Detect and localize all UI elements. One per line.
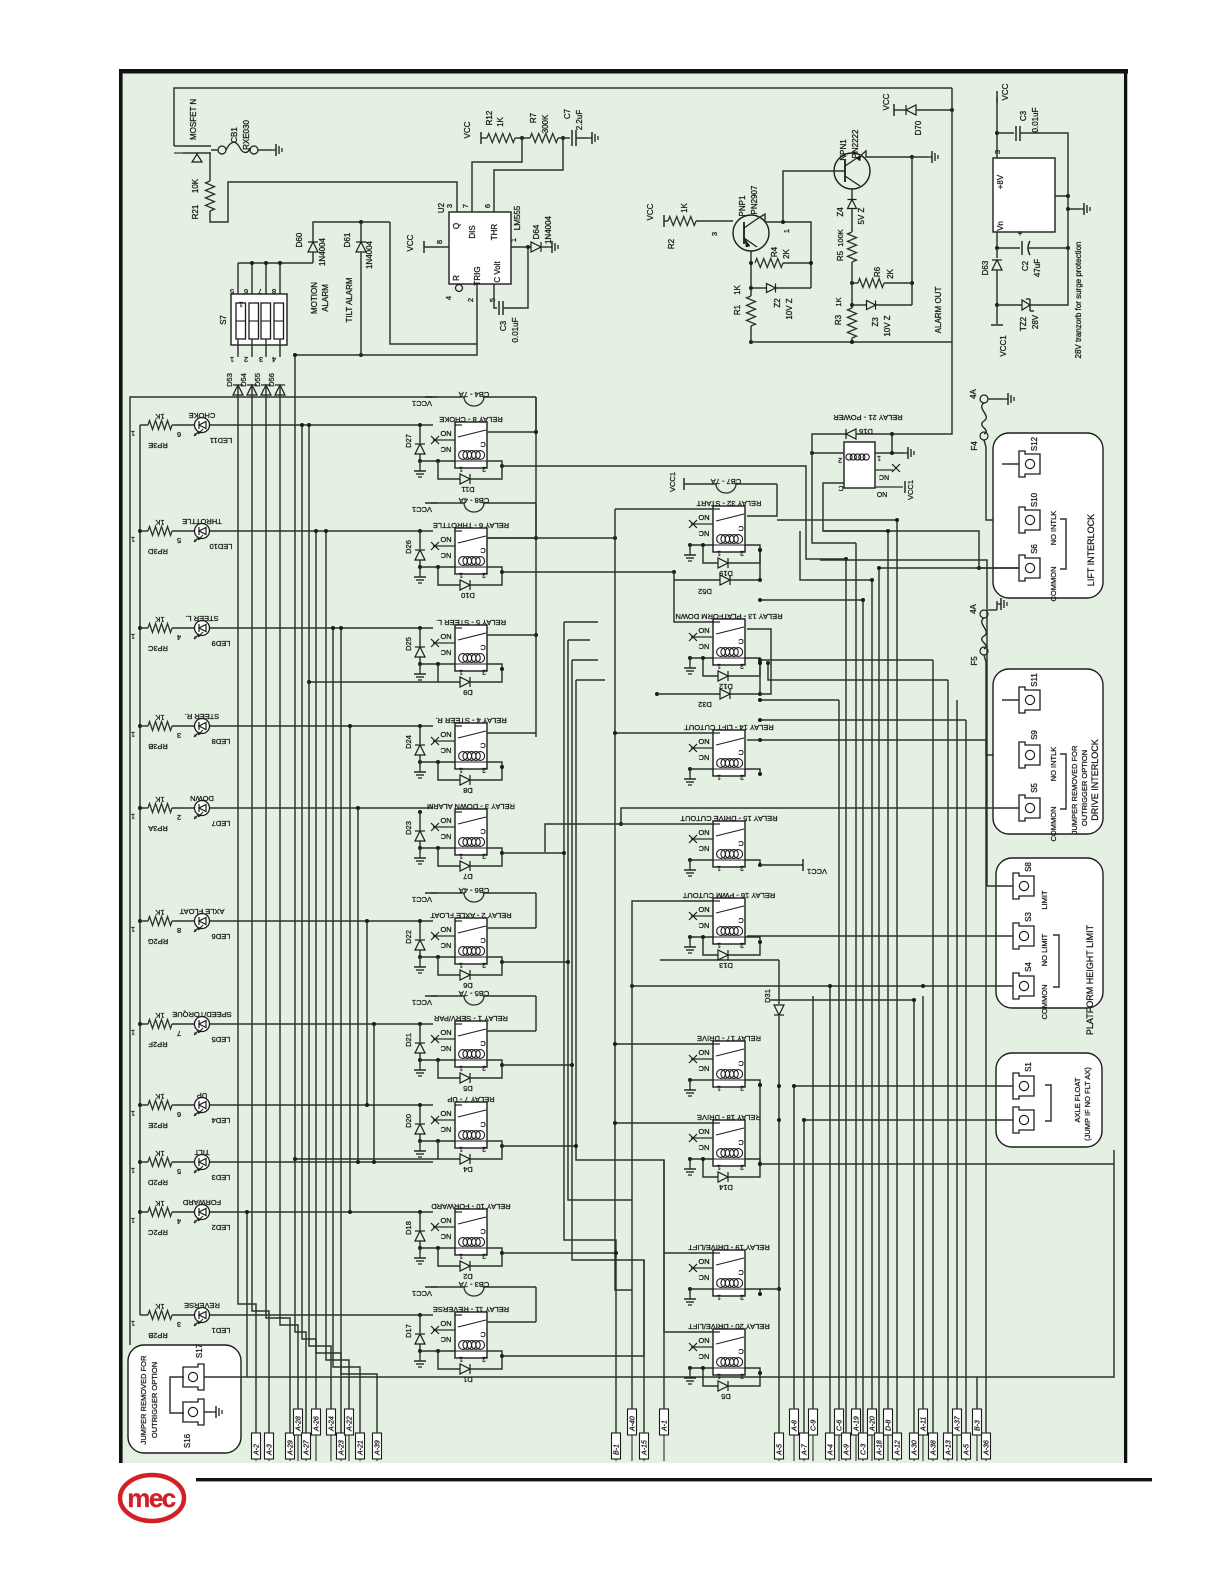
svg-text:R3: R3 [834, 314, 843, 325]
diode D17 [418, 1313, 422, 1317]
svg-text:TRIG: TRIG [473, 266, 482, 285]
ground D24 [418, 760, 422, 764]
wire VCC to R2 [663, 215, 665, 227]
svg-text:100K: 100K [836, 229, 845, 247]
wire pin1 RELAY 4 - STEER R. [420, 761, 455, 763]
connector A-22 [345, 1409, 354, 1435]
svg-text:C: C [838, 484, 844, 493]
svg-text:A-27: A-27 [304, 1439, 311, 1456]
svg-text:NO: NO [440, 429, 451, 438]
wire relay5 loop extension [309, 681, 438, 683]
svg-text:D63: D63 [981, 260, 990, 275]
svg-text:NC: NC [698, 921, 709, 930]
svg-text:1: 1 [459, 465, 463, 472]
svg-text:A-5: A-5 [777, 1444, 784, 1456]
svg-text:LED10: LED10 [210, 542, 233, 551]
svg-text:NC: NC [698, 529, 709, 538]
svg-text:D53: D53 [225, 373, 234, 387]
wire pin1 RELAY 5 - STEER L. [420, 663, 455, 665]
svg-text:S6: S6 [1030, 544, 1039, 554]
ground RELAY 19 - DRIVE/LIFT [688, 1287, 692, 1291]
resistor RP3C 1K [148, 624, 172, 633]
wire row STEER L. [140, 627, 148, 629]
svg-text:CB3 - 7A: CB3 - 7A [459, 1280, 489, 1289]
svg-text:OUTRIGGER OPTION: OUTRIGGER OPTION [1080, 750, 1089, 826]
pin 8 VCC [423, 241, 425, 253]
transistor NPN1 PN2222 [834, 153, 870, 189]
svg-text:D19: D19 [719, 569, 733, 578]
svg-text:A-37: A-37 [955, 1415, 962, 1432]
resistor R21 10K [209, 153, 211, 181]
svg-text:RELAY 21 - POWER: RELAY 21 - POWER [833, 413, 903, 422]
wire right bundle peel-offs [760, 599, 863, 601]
wire PNP1 pin1 loop [757, 214, 811, 288]
svg-text:ALARM: ALARM [321, 284, 330, 312]
svg-text:1: 1 [717, 773, 721, 780]
svg-text:3: 3 [259, 355, 263, 364]
svg-text:D32: D32 [698, 700, 712, 709]
node rail LED8 [138, 724, 142, 728]
svg-text:2: 2 [482, 1355, 486, 1362]
wire relay15 NO run [545, 824, 713, 852]
svg-text:RELAY 13 - PLATFORM DOWN: RELAY 13 - PLATFORM DOWN [675, 612, 782, 621]
svg-text:VCC: VCC [1001, 83, 1010, 100]
svg-text:3: 3 [710, 232, 719, 236]
svg-text:2: 2 [482, 1252, 486, 1259]
node rail LED7 [138, 806, 142, 810]
svg-text:MOTION: MOTION [310, 282, 319, 314]
diode D70 [893, 104, 895, 116]
svg-text:RP3C: RP3C [147, 644, 168, 653]
svg-text:C7: C7 [563, 108, 572, 119]
svg-text:RP2B: RP2B [148, 1331, 168, 1340]
wire PNP1 emitter column [750, 251, 752, 296]
ground right of CB1 [272, 149, 276, 151]
svg-text:A-22: A-22 [347, 1416, 354, 1432]
svg-text:UP: UP [197, 1091, 207, 1100]
connector A-20 [868, 1409, 877, 1435]
svg-text:mec: mec [127, 1483, 176, 1513]
svg-text:A-8: A-8 [792, 1420, 799, 1432]
relay RELAY 32 - START [713, 506, 745, 552]
svg-text:A-38: A-38 [931, 1440, 938, 1456]
svg-text:1: 1 [459, 1064, 463, 1071]
svg-text:NC: NC [879, 473, 889, 480]
svg-text:RELAY 10 - FORWARD: RELAY 10 - FORWARD [431, 1202, 511, 1211]
svg-text:RELAY 7 - UP: RELAY 7 - UP [447, 1095, 494, 1104]
switch box outrigger jumper [128, 1345, 241, 1453]
resistor R1 1K [747, 296, 756, 326]
ground RELAY 14 - LIFT CUTOUT [688, 767, 692, 771]
wire pin2 RELAY 10 - FORWARD [487, 1248, 502, 1253]
wire F4 to S10 [984, 440, 1010, 520]
svg-text:C: C [738, 916, 744, 925]
switch box LIFT INTERLOCK [993, 433, 1103, 598]
svg-text:PLATFORM HEIGHT LIMIT: PLATFORM HEIGHT LIMIT [1085, 924, 1095, 1035]
svg-text:CB1: CB1 [230, 127, 239, 143]
svg-text:2: 2 [466, 298, 475, 302]
svg-text:B-3: B-3 [975, 1420, 982, 1431]
diode D10 [438, 567, 460, 585]
svg-text:1: 1 [131, 1109, 135, 1118]
svg-text:28V tranzorb for surge protect: 28V tranzorb for surge protection [1074, 242, 1083, 359]
svg-text:A-1: A-1 [662, 1420, 669, 1432]
breaker CB3 - 7A [425, 1286, 437, 1288]
svg-text:REVERSE: REVERSE [184, 1301, 220, 1310]
svg-text:D14: D14 [719, 1183, 733, 1192]
svg-text:2: 2 [482, 465, 486, 472]
svg-text:1: 1 [717, 1084, 721, 1091]
svg-text:NO: NO [698, 905, 709, 914]
wire relay18 NO feed [615, 1122, 713, 1124]
wire motion alarm to relay area [390, 222, 477, 344]
ground RELAY 15 - DRIVE CUTOUT [688, 858, 692, 862]
ground D26 [418, 565, 422, 569]
connector A-30 [910, 1433, 919, 1459]
svg-text:RELAY 5 - STEER L.: RELAY 5 - STEER L. [436, 618, 506, 627]
svg-text:D27: D27 [404, 434, 413, 448]
breaker CB8 - 4A [425, 502, 437, 504]
connector A-13 [944, 1433, 953, 1459]
svg-text:NO: NO [440, 1109, 451, 1118]
diode D11 [438, 461, 460, 479]
relay RELAY 7 - UP [455, 1102, 487, 1148]
ground relay21 [904, 452, 908, 454]
svg-text:1K: 1K [155, 518, 164, 527]
svg-text:D21: D21 [404, 1033, 413, 1047]
wire relay6 pin2 run [502, 571, 674, 573]
wire row STEER R. [140, 725, 148, 727]
wire relay19 pin2 to column [760, 1288, 779, 1290]
resistor RP3B 1K [148, 722, 172, 731]
svg-text:VCC1: VCC1 [412, 1289, 432, 1298]
resistor R2 1K [664, 220, 668, 222]
svg-text:C: C [480, 546, 486, 555]
wire row SPEED/TORQUE [140, 1023, 148, 1025]
svg-text:S7: S7 [219, 315, 228, 325]
svg-text:4: 4 [177, 633, 181, 642]
svg-text:TILT ALARM: TILT ALARM [345, 277, 354, 322]
svg-text:RP3A: RP3A [148, 824, 168, 833]
ground RELAY 17 - DRIVE [688, 1078, 692, 1082]
svg-text:2K: 2K [782, 248, 791, 258]
relay RELAY 6 - THROTTLE [455, 528, 487, 574]
diode D20 [418, 1103, 422, 1107]
svg-text:MOSFET N: MOSFET N [189, 99, 198, 140]
svg-text:PN2222: PN2222 [851, 129, 860, 158]
switch S4 [1013, 973, 1034, 999]
svg-text:STEER R.: STEER R. [185, 712, 220, 721]
resistor RP3E 1K [148, 421, 172, 430]
svg-text:5V Z: 5V Z [857, 207, 866, 224]
svg-text:6: 6 [177, 430, 181, 439]
wire R6 Z3 right column [911, 157, 913, 305]
svg-text:6: 6 [244, 287, 248, 296]
wire relay1 pin2 run [502, 1064, 572, 1066]
svg-text:10V Z: 10V Z [883, 315, 892, 336]
svg-text:RELAY 14 - LIFT CUTOUT: RELAY 14 - LIFT CUTOUT [684, 723, 774, 732]
svg-text:A-24: A-24 [329, 1416, 336, 1432]
ground right of C7 [588, 137, 592, 139]
transistor MOSFET N [174, 145, 183, 147]
wire row REVERSE [140, 1314, 148, 1316]
wire row FORWARD [140, 1211, 148, 1213]
wire pin2 RELAY 6 - THROTTLE [487, 567, 502, 572]
svg-text:B-1: B-1 [614, 1444, 621, 1455]
svg-text:NC: NC [440, 551, 451, 560]
diode D63 [996, 248, 998, 258]
wire pin2 RELAY 3 - DOWN ALARM [487, 848, 502, 853]
svg-text:C3: C3 [499, 320, 508, 331]
resistor RP2E 1K [148, 1101, 172, 1110]
svg-text:D18: D18 [404, 1221, 413, 1235]
svg-text:2: 2 [740, 1084, 744, 1091]
LED LED5 [195, 1017, 210, 1032]
svg-text:D54: D54 [239, 373, 248, 387]
diode D4 [438, 1141, 460, 1159]
svg-text:7: 7 [177, 1029, 181, 1038]
diode D25 [418, 626, 422, 630]
ground D25 [418, 662, 422, 666]
svg-text:NC: NC [440, 445, 451, 454]
svg-text:1K: 1K [733, 284, 742, 294]
svg-text:C: C [738, 1268, 744, 1277]
svg-text:2: 2 [482, 1064, 486, 1071]
svg-text:6: 6 [177, 1110, 181, 1119]
svg-text:A-18: A-18 [877, 1440, 884, 1456]
resistor R4 2K [755, 259, 783, 268]
svg-text:RELAY 3 - DOWN ALARM: RELAY 3 - DOWN ALARM [427, 802, 515, 811]
svg-text:VCC1: VCC1 [412, 399, 432, 408]
svg-text:RELAY 2 - AXLE FLOAT: RELAY 2 - AXLE FLOAT [430, 911, 512, 920]
diode D5 [703, 1368, 718, 1386]
wire pin2 RELAY 14 - LIFT CUTOUT [745, 769, 760, 774]
ground F4 [988, 398, 1004, 400]
svg-text:5: 5 [177, 536, 181, 545]
svg-text:CB7 - 7A: CB7 - 7A [711, 477, 741, 486]
diode D23 [418, 810, 422, 814]
svg-text:Q: Q [452, 223, 461, 229]
svg-text:D60: D60 [295, 232, 304, 247]
svg-text:1K: 1K [155, 615, 164, 624]
wire relay17 pin2 column [759, 1085, 761, 1164]
ground D20 [418, 1139, 422, 1143]
svg-text:NO: NO [440, 535, 451, 544]
svg-text:S9: S9 [1030, 730, 1039, 740]
svg-text:1: 1 [459, 852, 463, 859]
svg-text:NC: NC [440, 1125, 451, 1134]
wire relay3 pin2 run [502, 852, 564, 854]
svg-text:1: 1 [131, 1166, 135, 1175]
svg-text:R7: R7 [529, 112, 538, 123]
wire left rail VCC1 column [130, 397, 432, 1345]
svg-text:C: C [480, 440, 486, 449]
svg-text:THROTTLE: THROTTLE [182, 517, 222, 526]
node rail LED9 [138, 626, 142, 630]
svg-text:C: C [738, 1138, 744, 1147]
wire pin1 RELAY 17 - DRIVE [690, 1079, 713, 1081]
svg-text:C: C [738, 748, 744, 757]
svg-text:A-26: A-26 [314, 1416, 321, 1432]
svg-text:A-11: A-11 [921, 1417, 928, 1432]
svg-text:1: 1 [131, 1216, 135, 1225]
svg-text:LED4: LED4 [212, 1116, 231, 1125]
svg-text:1: 1 [131, 429, 135, 438]
svg-text:NC: NC [698, 753, 709, 762]
wire pin2 RELAY 18 - DRIVE [745, 1159, 760, 1164]
svg-text:NO: NO [440, 1216, 451, 1225]
svg-text:1K: 1K [155, 1302, 164, 1311]
wire bus stub upper [564, 621, 598, 623]
svg-text:D24: D24 [404, 735, 413, 749]
svg-text:C: C [738, 839, 744, 848]
svg-text:FORWARD: FORWARD [182, 1198, 221, 1207]
svg-text:1: 1 [717, 549, 721, 556]
svg-text:2: 2 [838, 456, 842, 463]
svg-text:1K: 1K [155, 1199, 164, 1208]
svg-text:RELAY 1 - SERV/PAR: RELAY 1 - SERV/PAR [433, 1014, 508, 1023]
svg-text:1: 1 [782, 229, 791, 233]
diode D6 [438, 957, 460, 975]
svg-text:Vn: Vn [996, 221, 1005, 231]
net VCC1 at relay 15 [760, 864, 803, 866]
wire row UP [140, 1104, 148, 1106]
svg-text:D-8: D-8 [886, 1420, 893, 1431]
svg-text:C: C [480, 1227, 486, 1236]
resistor RP2D 1K [148, 1158, 172, 1167]
svg-text:VCC: VCC [646, 203, 655, 220]
connector B-3 [973, 1409, 982, 1435]
svg-text:0.01uF: 0.01uF [511, 317, 520, 342]
connector A-9 [842, 1433, 851, 1459]
svg-text:VCC1: VCC1 [807, 867, 827, 876]
svg-text:+: + [1018, 229, 1023, 238]
svg-text:D9: D9 [463, 688, 473, 697]
wire pin1 RELAY 3 - DOWN ALARM [420, 847, 455, 849]
svg-text:A-15: A-15 [642, 1440, 649, 1456]
svg-text:1: 1 [459, 668, 463, 675]
diode D16 [812, 434, 846, 453]
tranzorb TZ2 28V [995, 303, 999, 307]
svg-text:+8V: +8V [996, 174, 1005, 189]
regulator U3 +8V [993, 158, 1055, 232]
wire pin2 RELAY 11 - REVERSE [487, 1351, 502, 1356]
connector A-28 [294, 1409, 303, 1435]
svg-text:LED7: LED7 [212, 819, 231, 828]
svg-text:1: 1 [717, 1293, 721, 1300]
svg-text:8: 8 [177, 926, 181, 935]
schematic panel [119, 69, 1128, 1463]
wire jumper bracket axle [1045, 1085, 1051, 1121]
pin 4 reset circle [456, 285, 463, 292]
svg-text:RP2D: RP2D [147, 1178, 168, 1187]
wire pin1 RELAY 19 - DRIVE/LIFT [690, 1288, 713, 1290]
svg-text:5: 5 [177, 1167, 181, 1176]
wire led rail [139, 425, 141, 1315]
resistor RP2F 1K [148, 1020, 172, 1029]
wire mid bus tight group [564, 622, 616, 1433]
svg-text:NC: NC [440, 1232, 451, 1241]
switch S16 [183, 1399, 204, 1425]
svg-text:DOWN: DOWN [190, 794, 214, 803]
svg-text:D23: D23 [404, 821, 413, 835]
svg-text:4: 4 [444, 296, 453, 300]
ground D21 [418, 1058, 422, 1062]
ground RELAY 13 - PLATFORM DOWN [688, 656, 692, 660]
switch S1 [1013, 1073, 1034, 1099]
svg-text:D16: D16 [859, 427, 873, 436]
svg-text:F4: F4 [970, 441, 979, 451]
svg-text:A-2: A-2 [254, 1444, 261, 1456]
capacitor C3 0.01uF at pin5 [494, 284, 497, 308]
switch S1 lower contact [1013, 1107, 1034, 1133]
svg-text:VCC1: VCC1 [412, 895, 432, 904]
wire relay21 pin2 drop [812, 453, 856, 543]
svg-text:D11: D11 [461, 485, 474, 494]
pin 1 and diode D64 1N4004 [511, 246, 531, 248]
svg-text:VCC: VCC [406, 234, 415, 251]
svg-text:2: 2 [177, 813, 181, 822]
svg-text:C: C [738, 1347, 744, 1356]
breaker CB6 - 4A [425, 892, 437, 894]
svg-text:S8: S8 [1024, 862, 1033, 872]
diode D2 [438, 1248, 460, 1266]
svg-text:AXLE FLOAT: AXLE FLOAT [179, 907, 224, 916]
svg-text:RP2G: RP2G [148, 937, 169, 946]
svg-text:Z2: Z2 [773, 298, 782, 308]
diode D18 [418, 1210, 422, 1214]
wire S1 upper run [794, 1085, 975, 1087]
svg-text:LED1: LED1 [212, 1326, 231, 1335]
wire relay18 pin2 run [760, 1163, 1114, 1165]
wire pin1 RELAY 18 - DRIVE [690, 1158, 713, 1160]
svg-text:NO: NO [698, 1336, 709, 1345]
svg-text:NC: NC [698, 642, 709, 651]
diode D31 [774, 1005, 784, 1015]
svg-text:S11: S11 [1030, 673, 1039, 687]
wire row crossing verticals [349, 726, 351, 1212]
svg-text:1: 1 [717, 1163, 721, 1170]
capacitor C7 2.2uF [571, 130, 573, 146]
LED LED11 [195, 418, 210, 433]
svg-text:THR: THR [490, 224, 499, 241]
svg-text:NC: NC [698, 1352, 709, 1361]
connector A-5 [775, 1433, 784, 1459]
relay RELAY 2 - AXLE FLOAT [455, 918, 487, 964]
relay RELAY 15 - DRIVE CUTOUT [713, 821, 745, 867]
diode D52 [672, 570, 676, 574]
wire relay8 pin2 run [502, 466, 846, 559]
svg-text:RELAY 15 - DRIVE CUTOUT: RELAY 15 - DRIVE CUTOUT [680, 814, 778, 823]
relay RELAY 20 - DRIVE/LIFT [713, 1329, 745, 1375]
diode D12 [703, 658, 718, 676]
node rail LED6 [138, 919, 142, 923]
ground D23 [418, 846, 422, 850]
svg-text:0.01uF: 0.01uF [1031, 107, 1040, 132]
svg-text:NO: NO [698, 737, 709, 746]
relay RELAY 17 - DRIVE [713, 1041, 745, 1087]
wire platform bus [770, 999, 914, 1001]
svg-text:LED11: LED11 [210, 436, 232, 445]
wire relay11 pin2 run [502, 1260, 644, 1356]
svg-text:7: 7 [461, 204, 470, 208]
connector A-4 [826, 1433, 835, 1459]
wire S4 run [632, 985, 975, 987]
zener Z3 10V Z [852, 304, 866, 306]
mec logo [120, 1475, 184, 1521]
svg-text:LED2: LED2 [212, 1223, 231, 1232]
svg-text:3: 3 [177, 1320, 181, 1329]
